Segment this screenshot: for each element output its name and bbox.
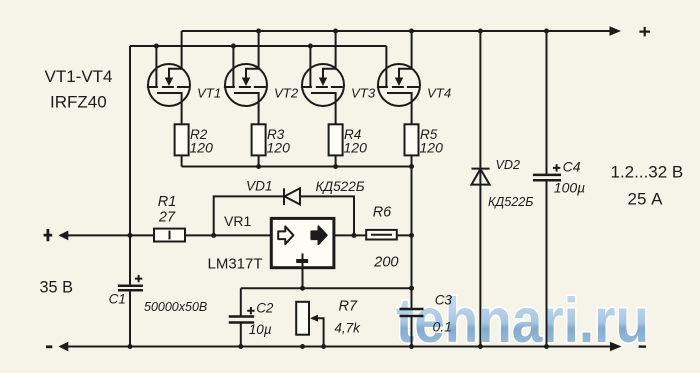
potentiometer R7 <box>296 298 361 346</box>
svg-text:35 В: 35 В <box>40 279 74 297</box>
capacitor C2 <box>229 300 274 337</box>
wire bottom rail <box>60 346 612 348</box>
terminal label minus input <box>46 345 52 348</box>
svg-text:4,7k: 4,7k <box>334 320 361 335</box>
diode VD2 <box>472 158 534 209</box>
svg-text:C1: C1 <box>109 291 126 306</box>
wire gate bus <box>130 45 386 47</box>
transistor VT4 <box>377 31 451 124</box>
svg-text:VT1-VT4: VT1-VT4 <box>45 67 113 86</box>
svg-text:120: 120 <box>420 139 444 155</box>
resistor R6 <box>366 204 398 270</box>
svg-text:IRFZ40: IRFZ40 <box>50 93 107 112</box>
node dots output line <box>352 233 415 238</box>
wire VD1 branch <box>214 196 354 235</box>
svg-text:R6: R6 <box>373 204 392 220</box>
terminal label plus input <box>44 229 53 241</box>
svg-text:КД522Б: КД522Б <box>316 179 365 194</box>
svg-text:120: 120 <box>190 139 214 155</box>
svg-text:VT3: VT3 <box>351 86 376 101</box>
resistor R2 <box>175 124 213 155</box>
arrow input minus <box>59 342 69 352</box>
terminal label minus output <box>639 345 646 347</box>
wire C2 branch <box>240 288 242 346</box>
svg-text:120: 120 <box>267 139 291 155</box>
capacitor C3 <box>400 309 424 316</box>
svg-text:1.2...32 В: 1.2...32 В <box>611 163 684 182</box>
svg-text:50000x50В: 50000x50В <box>144 300 207 314</box>
wire C4 branch <box>546 31 548 347</box>
svg-text:10µ: 10µ <box>249 322 272 337</box>
svg-text:0.1: 0.1 <box>433 318 452 334</box>
arrow input plus <box>59 231 69 241</box>
resistor R4 <box>329 124 367 155</box>
wire VD2 branch <box>479 31 481 347</box>
svg-text:27: 27 <box>158 210 176 226</box>
wire R4 lead to bus <box>335 155 337 166</box>
wire C1 branch <box>129 235 131 346</box>
svg-text:VR1: VR1 <box>224 213 251 229</box>
svg-text:VT2: VT2 <box>274 86 299 101</box>
svg-text:R1: R1 <box>158 194 177 210</box>
op-amp regulator VR1 LM317T <box>208 213 334 288</box>
svg-text:VD1: VD1 <box>246 179 272 194</box>
node dots input line <box>128 233 217 238</box>
node dots adjust line <box>300 286 414 291</box>
svg-text:VD2: VD2 <box>496 158 521 172</box>
svg-text:200: 200 <box>373 254 398 270</box>
wire adjust line <box>241 287 412 289</box>
svg-text:120: 120 <box>344 139 368 155</box>
transistor VT1 <box>147 31 221 124</box>
transistor VT3 <box>301 31 376 124</box>
svg-text:R7: R7 <box>339 298 358 314</box>
svg-text:25 А: 25 А <box>628 190 664 209</box>
watermark tehnari.ru <box>396 285 649 355</box>
resistor R1 <box>154 194 185 242</box>
svg-text:C3: C3 <box>435 293 453 308</box>
capacitor C4 <box>533 159 585 196</box>
wire resistor source bus <box>182 166 412 168</box>
wire output line of VR1 <box>334 234 412 236</box>
wire top output bus <box>182 30 612 32</box>
svg-text:VT4: VT4 <box>427 86 451 101</box>
node dots gate bus <box>154 44 313 49</box>
node dots resistor bus <box>256 164 414 169</box>
svg-text:LM317T: LM317T <box>208 256 263 273</box>
terminal label plus output <box>639 27 650 37</box>
arrow output plus <box>610 26 622 36</box>
arrow output minus <box>610 342 622 352</box>
svg-text:C4: C4 <box>563 159 581 175</box>
node dots bottom rail <box>128 344 550 349</box>
capacitor C1 <box>109 275 208 314</box>
node dots top bus <box>256 29 549 34</box>
wire left vertical from gate bus to input line <box>129 46 131 235</box>
wire R3 lead to bus <box>258 155 260 166</box>
transistor VT2 <box>224 31 299 124</box>
wire input line left <box>60 234 271 236</box>
svg-text:100µ: 100µ <box>554 180 585 196</box>
svg-text:C2: C2 <box>256 300 274 315</box>
svg-text:VT1: VT1 <box>197 86 221 101</box>
resistor R5 <box>405 124 444 155</box>
diode VD1 <box>246 179 365 205</box>
resistor R3 <box>252 124 290 155</box>
wire main right vertical (R5/C3 branch) <box>411 155 413 346</box>
wire R2 lead to bus <box>181 155 183 166</box>
svg-text:КД522Б: КД522Б <box>488 195 534 209</box>
